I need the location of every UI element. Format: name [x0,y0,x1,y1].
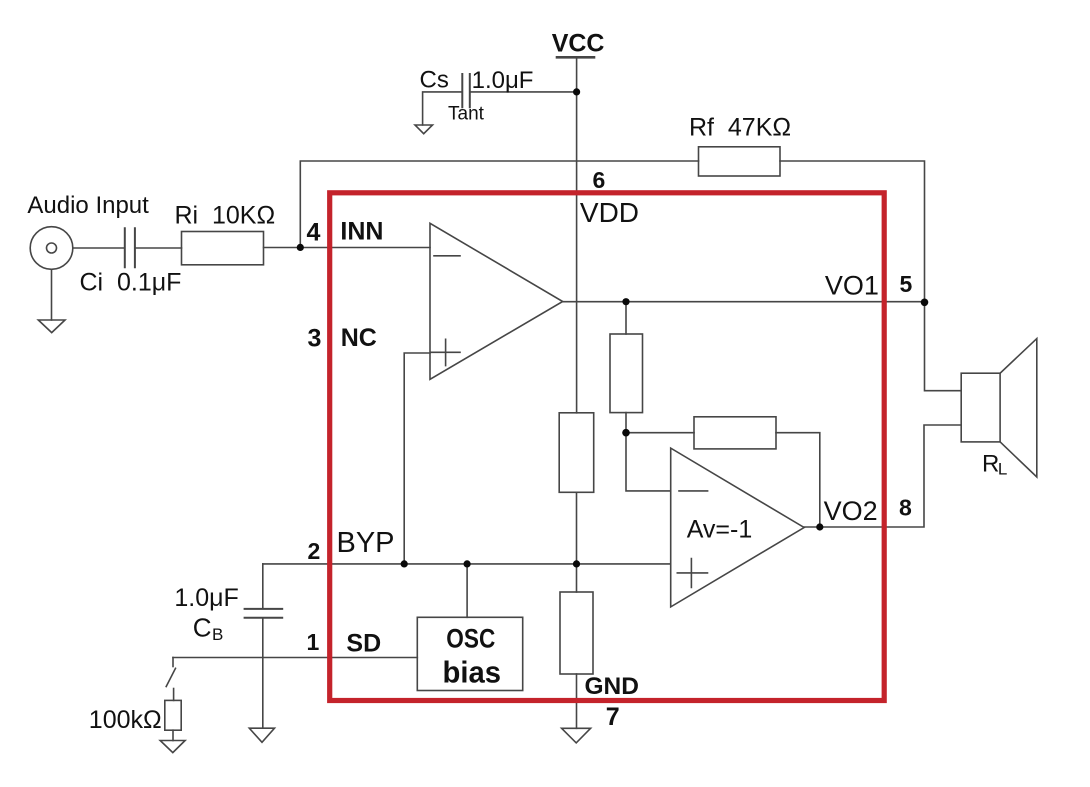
wire Ci to Ri [135,247,181,249]
svg-text:NC: NC [341,324,377,352]
resistor internal (lower, GND) [560,592,593,674]
wire 100k to ground [172,730,174,740]
wire middle resistor to BYP [576,492,578,564]
svg-text:1.0μF: 1.0μF [472,67,534,94]
block OSC bias [417,617,522,690]
resistor Ri [182,232,264,265]
svg-text:R: R [982,451,999,478]
capacitor Ci plates [125,228,135,267]
wire BYP rail [263,563,671,565]
node BYP / divider [573,560,580,567]
op-amp U2 plus [677,559,707,588]
node BYP / OSC [464,560,471,567]
switch SW1 [172,658,174,667]
op-amp U1 [430,223,563,379]
capacitor C_B plates [245,609,283,618]
svg-text:VCC: VCC [552,29,605,57]
svg-text:5: 5 [900,271,913,297]
ground (GND pin 7) [562,728,591,743]
svg-text:L: L [998,459,1007,478]
svg-text:Ri 10KΩ: Ri 10KΩ [175,202,276,230]
node Cs/VCC [573,88,580,95]
node BYP / U1 plus [401,560,408,567]
svg-text:4: 4 [307,218,321,246]
svg-text:7: 7 [606,703,620,731]
op-amp U2 minus [679,490,708,492]
resistor 100k [165,700,181,730]
wire VCC vertical down to VDD/resistor [576,57,578,413]
wire C_B bottom to ground [262,619,264,729]
svg-text:OSC: OSC [446,624,495,654]
ground (audio input) [51,269,53,320]
wire Cs right segment to VCC node [470,91,577,93]
wire connector to Ci [73,247,125,249]
wire node to feedback resistor [626,432,694,434]
wire R internal top [625,302,627,334]
svg-text:VO2: VO2 [824,496,878,526]
svg-text:3: 3 [308,325,322,353]
audio input connector [30,227,73,270]
resistor Rf [699,147,781,176]
wire VO1 node down to speaker [925,302,962,390]
resistor feedback U2 [694,417,776,449]
op-amp U1 minus [434,255,460,257]
wire SD to OSC [173,657,417,659]
svg-text:6: 6 [593,167,606,193]
svg-text:Rf 47KΩ: Rf 47KΩ [689,114,791,142]
svg-text:Tant: Tant [448,104,485,125]
svg-text:INN: INN [340,217,383,245]
svg-text:SD: SD [346,629,381,657]
resistor internal (upper) [610,334,643,413]
svg-text:Audio Input: Audio Input [27,192,149,219]
power symbol VCC [557,56,594,59]
wire internal resistor to node [625,413,627,433]
svg-text:2: 2 [308,538,321,564]
svg-text:Cs: Cs [420,67,449,94]
svg-text:BYP: BYP [337,527,395,559]
wire feedback resistor to VO2 [776,433,820,527]
wire OSC box to BYP [466,564,468,617]
svg-text:C: C [193,613,212,643]
svg-text:8: 8 [899,495,912,521]
IC boundary (red box) [330,193,885,701]
svg-text:Av=-1: Av=-1 [687,515,753,543]
wire node down to U2 minus input [626,433,671,491]
wire Rf right to corner down to VO1 node [780,161,925,302]
svg-text:VDD: VDD [580,197,639,228]
ground (100k) [160,741,185,753]
svg-text:1.0μF: 1.0μF [174,584,238,612]
wire Cs left segment to ground [423,92,462,125]
svg-text:100kΩ: 100kΩ [89,706,162,734]
resistor internal (middle, VDD chain) [559,413,594,493]
speaker RL [961,373,1000,442]
wire BYP to lower resistor [576,564,578,592]
op-amp U1 plus [431,339,460,365]
svg-text:bias: bias [443,655,502,690]
node VO1 pin 5 [921,299,929,307]
node VO2 output [816,523,823,530]
svg-text:Ci 0.1μF: Ci 0.1μF [80,269,182,297]
node feedback U2 [622,429,630,437]
op-amp U2 [671,448,804,607]
ground (C_B) [249,728,274,742]
wire U1 plus input down to BYP [404,353,430,564]
ground (Cs) [415,125,433,134]
wire U1 output VO1 [563,301,925,303]
svg-text:1: 1 [307,629,320,655]
svg-text:GND: GND [585,673,639,700]
wire C_B top [262,564,264,608]
wire U2 output VO2 [804,425,961,527]
svg-text:VO1: VO1 [825,270,879,300]
wire feedback node up and across top [300,161,698,247]
wire Ri to INN pin 4 [264,247,430,249]
node INN/feedback [297,244,304,251]
svg-text:B: B [212,625,223,644]
capacitor Cs plates [462,74,470,107]
node VO1 internal [622,298,629,305]
wire lower resistor to GND pin 7 [576,674,578,728]
